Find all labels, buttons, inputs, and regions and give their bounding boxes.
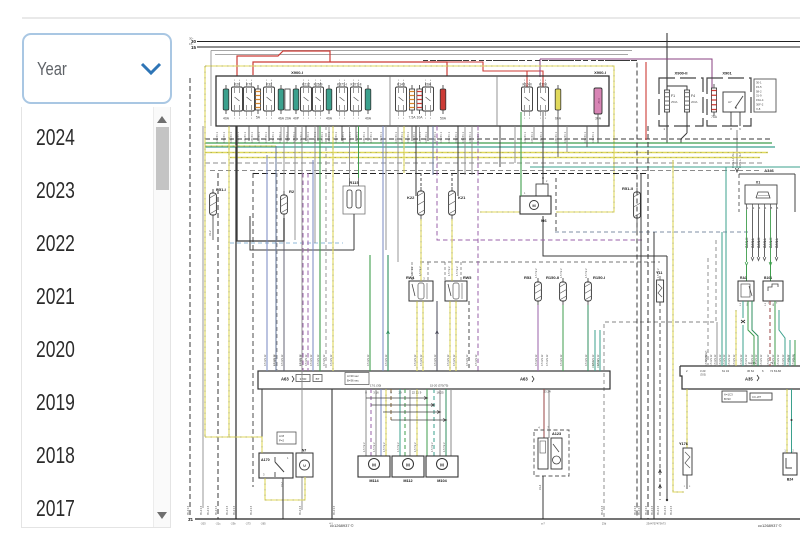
svg-text:0.35 BK 1: 0.35 BK 1 — [395, 131, 398, 143]
svg-text:0.35 BK 1: 0.35 BK 1 — [363, 131, 366, 143]
svg-text:3: 3 — [529, 118, 531, 120]
wire — [450, 301, 456, 371]
svg-text:40A: 40A — [365, 117, 372, 121]
svg-text:K10-II: K10-II — [522, 83, 531, 87]
wire — [370, 389, 372, 456]
svg-text:0.5 GN 12: 0.5 GN 12 — [592, 354, 595, 366]
svg-text:23d: 23d — [602, 522, 607, 526]
wire — [237, 51, 330, 76]
wire — [659, 366, 662, 500]
wire — [596, 330, 600, 371]
svg-text:R150-II: R150-II — [546, 275, 559, 280]
svg-text:1.5 YE 2: 1.5 YE 2 — [456, 266, 459, 276]
fuse 46A — [278, 85, 285, 121]
svg-text:35-4 0.5: 35-4 0.5 — [207, 505, 210, 515]
svg-text:1.5 YE 2: 1.5 YE 2 — [443, 442, 446, 452]
svg-text:M104: M104 — [437, 479, 447, 483]
svg-text:0.5 GN 12: 0.5 GN 12 — [740, 354, 743, 366]
wire — [409, 389, 411, 456]
resistor K22 — [407, 187, 424, 219]
svg-text:0.35 BK 1: 0.35 BK 1 — [413, 131, 416, 143]
fuse box X901 — [707, 71, 751, 127]
wire — [420, 219, 422, 281]
wire — [423, 60, 637, 62]
svg-text:K6A: K6A — [425, 83, 432, 87]
wire — [450, 389, 452, 456]
wire — [769, 301, 771, 366]
svg-text:1.5 YE 2: 1.5 YE 2 — [414, 442, 417, 452]
fuse 40A — [365, 85, 372, 121]
connector pins — [747, 204, 779, 210]
module R115 — [343, 178, 365, 214]
wire — [397, 126, 399, 262]
wire — [537, 305, 539, 371]
wire — [280, 481, 284, 487]
svg-text:3: 3 — [403, 118, 405, 120]
wire — [686, 389, 688, 448]
svg-text:0.35 BK 1: 0.35 BK 1 — [419, 131, 422, 143]
svg-text:61 34: 61 34 — [722, 369, 729, 373]
svg-text:0.5 GN 12: 0.5 GN 12 — [414, 354, 417, 366]
svg-text:3: 3 — [271, 118, 273, 120]
wire — [282, 478, 284, 519]
wire — [433, 389, 435, 456]
svg-text:1: 1 — [353, 118, 355, 120]
svg-text:15-: 15- — [189, 42, 193, 46]
svg-text:M: M — [303, 463, 306, 468]
wire labels — [264, 354, 795, 366]
svg-text:X901: X901 — [722, 71, 732, 76]
svg-text:20A: 20A — [285, 117, 292, 121]
wire labels — [363, 266, 660, 452]
svg-text:1.5 YE 2: 1.5 YE 2 — [363, 442, 366, 452]
svg-text:35-4 0.5: 35-4 0.5 — [651, 505, 654, 515]
fuse 5A — [255, 85, 260, 120]
wire — [752, 301, 758, 366]
wire — [555, 178, 557, 232]
wire — [237, 126, 284, 241]
wire — [331, 389, 333, 519]
svg-text:250A: 250A — [671, 100, 678, 104]
wire — [716, 322, 718, 366]
svg-text:0.5 GN 12: 0.5 GN 12 — [541, 354, 544, 366]
wire — [745, 210, 778, 266]
svg-text:46A: 46A — [278, 117, 285, 121]
fuse box X900-II — [659, 71, 703, 127]
svg-text:0.35 BK 1: 0.35 BK 1 — [380, 131, 383, 143]
wire — [645, 62, 647, 140]
svg-text:0.5 GN 12: 0.5 GN 12 — [751, 354, 754, 366]
svg-text:0.35 BK 1: 0.35 BK 1 — [448, 131, 451, 143]
wire — [604, 240, 716, 517]
svg-text:0.5 GN 12: 0.5 GN 12 — [264, 354, 267, 366]
svg-text:1.5 YE 2: 1.5 YE 2 — [397, 442, 400, 452]
node CAN labels — [745, 237, 779, 248]
wire — [447, 62, 543, 87]
svg-text:R53: R53 — [524, 275, 532, 280]
svg-text:B101: B101 — [764, 276, 772, 280]
svg-text:R115: R115 — [349, 180, 359, 185]
svg-text:75A: 75A — [711, 115, 718, 119]
svg-text:0.35 BK 1: 0.35 BK 1 — [584, 131, 587, 143]
svg-text:CAN-L 16-3: CAN-L 16-3 — [738, 152, 742, 168]
relay RA1 — [738, 276, 754, 306]
svg-text:0.35 BK 1: 0.35 BK 1 — [279, 131, 282, 143]
fuse box X900-I — [216, 70, 609, 126]
bus wire — [205, 146, 775, 148]
svg-text:1: 1 — [339, 118, 341, 120]
svg-text:0.35 BK 1: 0.35 BK 1 — [244, 131, 247, 143]
wire — [468, 301, 470, 371]
wire — [436, 301, 439, 371]
svg-text:0.35 BK 1: 0.35 BK 1 — [370, 131, 373, 143]
fuse 10A — [416, 85, 423, 120]
fuse 40A — [293, 85, 300, 121]
svg-text:40A: 40A — [223, 117, 230, 121]
wire — [741, 301, 745, 366]
resistor K21 — [449, 187, 467, 219]
wire — [369, 255, 371, 371]
wire — [385, 126, 387, 250]
node CAN-L — [738, 152, 742, 168]
wire — [253, 62, 447, 76]
svg-text:1.5 YE 2: 1.5 YE 2 — [585, 268, 588, 278]
svg-text:15A-4: 15A-4 — [756, 98, 764, 102]
wire — [399, 389, 401, 456]
wire labels — [216, 131, 595, 143]
svg-text:3200: 3200 — [300, 377, 307, 381]
svg-text:31-9: 31-9 — [756, 94, 762, 98]
svg-text:a-7: a-7 — [541, 522, 545, 526]
wire — [480, 211, 521, 213]
svg-text:0.35 BK 1: 0.35 BK 1 — [540, 131, 543, 143]
wire — [426, 389, 428, 456]
svg-text:0.5 GN 12: 0.5 GN 12 — [787, 354, 790, 366]
connector X1 — [745, 181, 777, 205]
bus wire — [205, 152, 768, 154]
svg-text:15-20 (375/75): 15-20 (375/75) — [430, 384, 448, 388]
svg-text:30-1: 30-1 — [756, 81, 762, 85]
wire — [774, 301, 776, 366]
wire — [261, 389, 263, 453]
wire — [557, 114, 559, 157]
svg-text:1: 1 — [540, 118, 542, 120]
wire — [667, 86, 687, 90]
wire — [477, 126, 479, 371]
wire — [587, 305, 589, 371]
resistor R53 — [524, 275, 541, 305]
svg-text:35-4 0.5: 35-4 0.5 — [670, 505, 673, 515]
svg-text:R51-II: R51-II — [622, 186, 633, 191]
svg-text:6: 6 — [739, 127, 741, 131]
ECU A35 — [680, 361, 800, 389]
svg-text:A=8: A=8 — [279, 434, 284, 438]
svg-text:0.35 BK 1: 0.35 BK 1 — [440, 131, 443, 143]
svg-text:0.5 GN 12: 0.5 GN 12 — [546, 354, 549, 366]
svg-text:0.5 GN 12: 0.5 GN 12 — [597, 354, 600, 366]
pin labels — [200, 522, 666, 526]
wire — [666, 33, 668, 89]
svg-text:A170: A170 — [261, 458, 270, 462]
wire — [319, 126, 321, 371]
relay RW4 — [406, 276, 433, 301]
motor M6 — [520, 126, 551, 223]
fuse F1 250A — [664, 86, 677, 116]
relay K143 — [396, 80, 407, 120]
fuse 75A — [711, 84, 718, 119]
svg-text:0.5 GN 12: 0.5 GN 12 — [714, 354, 717, 366]
wire — [562, 305, 564, 371]
svg-text:1: 1 — [266, 118, 268, 120]
relay K70 — [244, 80, 255, 120]
svg-text:1: 1 — [303, 118, 305, 120]
resistor R51-I — [210, 187, 226, 219]
svg-text:cc1268937 ©: cc1268937 © — [330, 523, 354, 528]
wire — [371, 404, 435, 407]
wire — [266, 155, 268, 371]
wire — [229, 436, 262, 438]
svg-text:-203: -203 — [200, 522, 206, 526]
svg-text:0.35 BK 1: 0.35 BK 1 — [230, 131, 233, 143]
svg-text:RW5: RW5 — [463, 276, 471, 280]
harness frame — [211, 51, 632, 127]
svg-text:31: 31 — [188, 517, 194, 522]
wire — [725, 167, 727, 366]
svg-text:0.5 GN 12: 0.5 GN 12 — [475, 354, 478, 366]
svg-text:58-2: 58-2 — [756, 89, 762, 93]
svg-text:35-4 0.5: 35-4 0.5 — [200, 505, 203, 515]
wire — [417, 301, 423, 371]
svg-text:0.5 GN 12: 0.5 GN 12 — [728, 354, 731, 366]
svg-text:K371-II: K371-II — [351, 83, 362, 87]
Year list — [21, 107, 171, 528]
wire — [451, 219, 453, 281]
wire — [205, 66, 614, 212]
svg-text:0.35 BK 1: 0.35 BK 1 — [356, 131, 359, 143]
fuse F32 30A — [594, 88, 602, 121]
svg-text:17/1 (30): 17/1 (30) — [370, 384, 381, 388]
wire — [403, 126, 405, 173]
svg-text:CAN-H 16-9: CAN-H 16-9 — [731, 151, 735, 168]
fuse 20A — [285, 89, 292, 121]
wire — [548, 389, 550, 438]
relay N7 — [296, 449, 313, 478]
relay K10-II — [522, 80, 533, 120]
svg-text:0.5 GN 12: 0.5 GN 12 — [782, 354, 785, 366]
svg-text:0.35 BK 1: 0.35 BK 1 — [434, 131, 437, 143]
svg-text:X900-I: X900-I — [291, 70, 303, 75]
svg-text:A346: A346 — [764, 168, 774, 173]
wire — [746, 265, 748, 281]
wire — [217, 173, 219, 519]
relay K20 — [232, 80, 243, 120]
svg-text:1: 1 — [234, 118, 236, 120]
svg-text:0.5 GN 12: 0.5 GN 12 — [792, 354, 795, 366]
svg-text:0.35 BK 1: 0.35 BK 1 — [531, 131, 534, 143]
wire — [439, 389, 441, 456]
resistor R2 — [281, 189, 295, 218]
svg-text:40A: 40A — [326, 117, 333, 121]
svg-text:8: 8 — [730, 127, 732, 131]
svg-text:0.5: 0.5 — [765, 302, 767, 306]
wire — [189, 78, 191, 519]
wire — [423, 61, 637, 520]
svg-text:CC-W7: CC-W7 — [752, 395, 762, 399]
fuse F1 40A — [223, 85, 230, 121]
svg-text:31-2: 31-2 — [208, 230, 212, 236]
wire — [385, 389, 387, 456]
svg-text:200A: 200A — [691, 100, 698, 104]
svg-text:0.35 BK 1: 0.35 BK 1 — [462, 131, 465, 143]
legend box — [277, 432, 296, 444]
svg-text:0.35 BK 1: 0.35 BK 1 — [555, 131, 558, 143]
svg-text:30F-2: 30F-2 — [756, 103, 764, 107]
wire — [235, 126, 237, 519]
wire — [390, 389, 392, 420]
svg-text:0.5 GN 12: 0.5 GN 12 — [560, 354, 563, 366]
wire — [294, 126, 296, 240]
wire — [205, 145, 276, 147]
wire — [301, 126, 303, 510]
svg-text:0.5 GN 12: 0.5 GN 12 — [777, 354, 780, 366]
svg-text:0.5 GN 12: 0.5 GN 12 — [367, 354, 370, 366]
wire — [202, 126, 204, 508]
relay K32 — [264, 80, 275, 120]
svg-text:0.35 BK 1: 0.35 BK 1 — [223, 131, 226, 143]
svg-text:74 63-66: 74 63-66 — [770, 369, 781, 373]
svg-text:K10-I: K10-I — [539, 83, 547, 87]
svg-text:0.35 BK 1: 0.35 BK 1 — [349, 131, 352, 143]
svg-text:23A4757473A73: 23A4757473A73 — [646, 522, 666, 526]
svg-text:35-4 0.5: 35-4 0.5 — [250, 505, 253, 515]
bus wire — [210, 170, 760, 172]
svg-text:1.5 YE 2: 1.5 YE 2 — [373, 442, 376, 452]
switch A170 — [259, 453, 293, 478]
wire — [382, 126, 384, 371]
wire — [252, 173, 254, 487]
wire — [366, 397, 428, 400]
relay K26/9 — [313, 80, 324, 120]
svg-text:5A: 5A — [256, 116, 261, 120]
wire — [791, 389, 793, 453]
svg-text:1.5 YE 2: 1.5 YE 2 — [411, 266, 414, 276]
wire — [499, 126, 501, 167]
wire — [265, 477, 305, 500]
svg-text:23 24: 23 24 — [544, 390, 551, 394]
node CAN-H — [731, 130, 739, 172]
svg-text:3 23: 3 23 — [700, 369, 706, 373]
wire — [380, 389, 382, 456]
svg-text:1: 1 — [425, 118, 427, 120]
svg-text:0.5 GN 12: 0.5 GN 12 — [535, 354, 538, 366]
svg-text:0.35 BK 1: 0.35 BK 1 — [237, 131, 240, 143]
relay K212 — [301, 80, 312, 120]
svg-text:3: 3 — [423, 277, 425, 281]
svg-text:3: 3 — [251, 118, 253, 120]
wire — [457, 126, 459, 196]
svg-text:cc1268937 ©: cc1268937 © — [758, 523, 782, 528]
svg-text:5: 5 — [771, 207, 773, 210]
svg-text:K20: K20 — [234, 83, 240, 87]
legend box — [722, 391, 747, 402]
svg-text:0.5 GN 12: 0.5 GN 12 — [310, 354, 313, 366]
legend box — [750, 393, 772, 400]
relay RW5 — [445, 276, 471, 301]
power rail 30 — [189, 37, 800, 45]
wire — [412, 262, 428, 281]
svg-text:0.35 BK 1: 0.35 BK 1 — [592, 131, 595, 143]
wire — [437, 126, 642, 240]
wire — [786, 389, 788, 453]
svg-text:A123: A123 — [552, 432, 561, 436]
svg-text:M6: M6 — [541, 218, 547, 223]
svg-text:16 25: 16 25 — [437, 391, 444, 395]
wire — [538, 476, 543, 519]
svg-text:0.5 GN 12: 0.5 GN 12 — [710, 354, 713, 366]
ground rail 31 — [188, 517, 800, 522]
wire — [566, 126, 568, 152]
svg-text:Y176: Y176 — [679, 442, 688, 446]
svg-text:31-4: 31-4 — [538, 484, 542, 490]
wire — [250, 216, 354, 250]
fuse 50A — [440, 85, 447, 121]
svg-text:0.5 GN 12: 0.5 GN 12 — [323, 354, 326, 366]
sensor B101 — [763, 276, 783, 306]
svg-text:35-4 0.5: 35-4 0.5 — [638, 505, 641, 515]
svg-text:0.5 GN 12: 0.5 GN 12 — [723, 354, 726, 366]
svg-text:B24: B24 — [787, 478, 793, 482]
svg-text:A35: A35 — [745, 377, 753, 382]
svg-text:2: 2 — [686, 369, 688, 373]
svg-text:0.5 GN 12: 0.5 GN 12 — [745, 354, 748, 366]
wire — [275, 146, 277, 371]
svg-text:30-: 30- — [189, 37, 193, 41]
svg-text:6: 6 — [777, 207, 779, 210]
svg-text:3: 3 — [689, 486, 691, 488]
svg-text:1.5 YE 2: 1.5 YE 2 — [535, 268, 538, 278]
svg-text:3: 3 — [320, 118, 322, 120]
svg-text:-265: -265 — [260, 522, 266, 526]
wire — [705, 258, 708, 366]
svg-text:F4: F4 — [691, 94, 695, 98]
svg-text:0.35 BK 1: 0.35 BK 1 — [425, 131, 428, 143]
svg-text:0.35 BK 1: 0.35 BK 1 — [286, 131, 289, 143]
svg-text:0.5 GN 12: 0.5 GN 12 — [719, 354, 722, 366]
wire — [779, 310, 785, 366]
fuse F4 200A — [684, 86, 697, 116]
svg-text:35-4 0.5: 35-4 0.5 — [299, 505, 302, 515]
svg-text:-273: -273 — [245, 522, 251, 526]
svg-text:0.35 BK 1: 0.35 BK 1 — [328, 131, 331, 143]
svg-text:3: 3 — [239, 118, 241, 120]
wire — [325, 126, 327, 371]
svg-text:R150-I: R150-I — [593, 275, 605, 280]
bus wire — [205, 142, 772, 144]
svg-text:0.35 BK 1: 0.35 BK 1 — [407, 131, 410, 143]
wire — [586, 126, 588, 147]
wire — [451, 173, 453, 187]
svg-text:0.5 GN 12: 0.5 GN 12 — [755, 354, 758, 366]
svg-text:9: 9 — [390, 391, 392, 395]
svg-text:0.5 GN 12: 0.5 GN 12 — [466, 354, 469, 366]
svg-text:N7: N7 — [302, 449, 307, 453]
svg-text:2: 2 — [792, 450, 794, 453]
svg-text:3: 3 — [344, 118, 346, 120]
svg-text:0.5 GN 12: 0.5 GN 12 — [305, 354, 308, 366]
svg-text:(305): (305) — [700, 373, 706, 377]
wire — [663, 112, 667, 143]
wire — [276, 173, 278, 371]
